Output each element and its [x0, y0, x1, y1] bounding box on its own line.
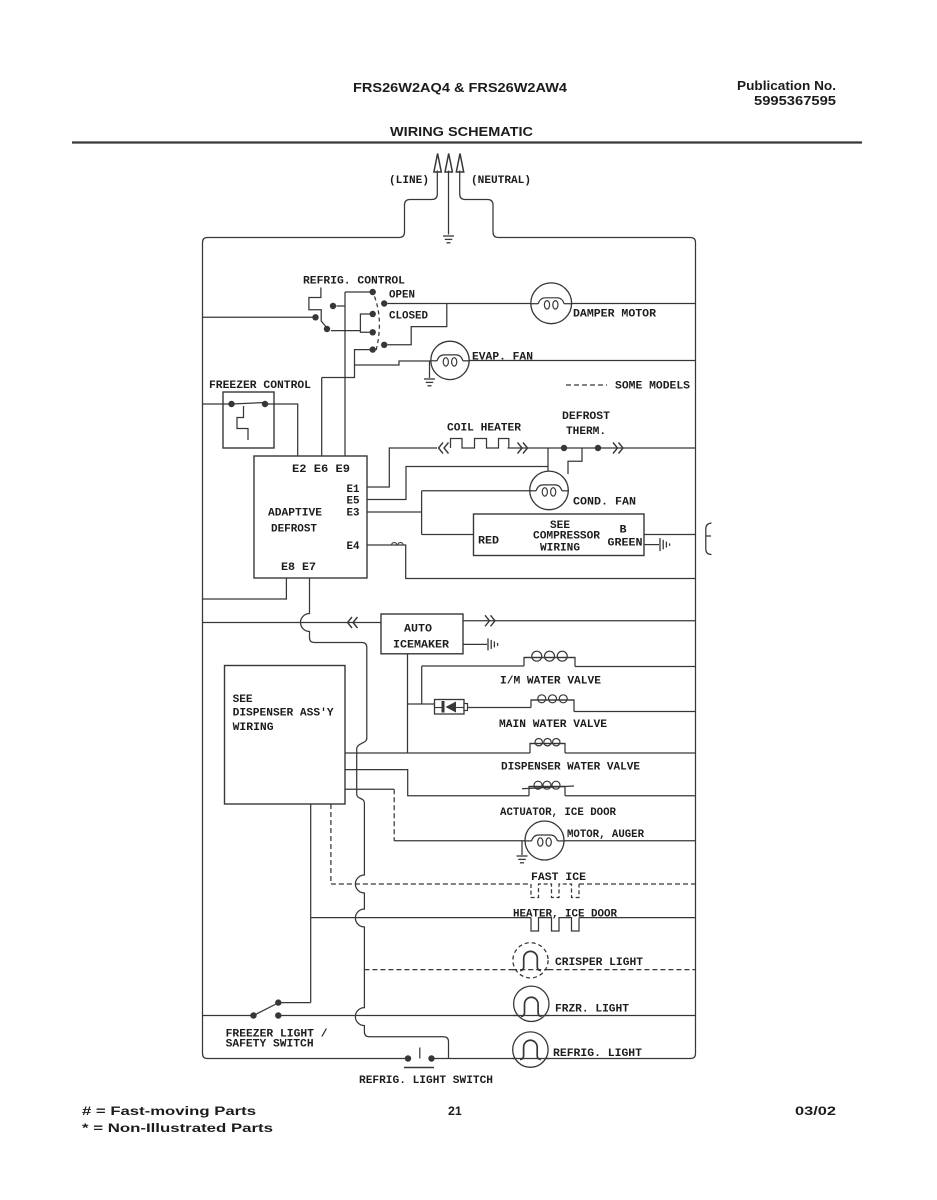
wire RED riser [421, 491, 423, 535]
ground symbol (compressor green) [659, 538, 661, 551]
wire E5 route [367, 467, 548, 500]
wire E8 to left edge [203, 578, 287, 599]
dispenser water valve coil [530, 744, 565, 754]
wire left edge to refrig control [203, 316, 314, 318]
contact [262, 401, 268, 407]
wire E1 to coil heater row [367, 448, 437, 487]
wire switch to dispenser box [282, 804, 311, 1003]
actuator ice door coil [529, 787, 565, 796]
wire GREEN to ground [644, 544, 659, 546]
adaptive defrost control box [254, 456, 367, 578]
wire left edge to freezer control [203, 403, 230, 405]
svg-text:OPEN: OPEN [389, 290, 415, 302]
svg-text:DISPENSER WATER VALVE: DISPENSER WATER VALVE [501, 762, 640, 774]
main water valve coil [531, 700, 574, 712]
contact OPEN [381, 300, 387, 306]
refrig control thermostat bracket [309, 288, 326, 327]
svg-text:FAST ICE: FAST ICE [531, 872, 586, 884]
svg-text:SOME MODELS: SOME MODELS [615, 381, 690, 393]
wire [331, 330, 360, 332]
svg-text:MOTOR, AUGER: MOTOR, AUGER [567, 829, 644, 841]
contact [370, 346, 376, 352]
svg-text:EVAP. FAN: EVAP. FAN [472, 352, 533, 364]
evap fan motor [431, 341, 469, 379]
wire E7 route [301, 578, 449, 1059]
wire OPEN to damper motor [388, 303, 531, 305]
wire dispenser box to actuator [345, 770, 529, 796]
chevron right [523, 443, 528, 454]
contact [330, 303, 336, 309]
svg-text:AUTO: AUTO [404, 624, 432, 636]
wire i/m valve to right edge [575, 666, 696, 668]
auger motor [525, 821, 564, 860]
svg-text:REFRIG. LIGHT SWITCH: REFRIG. LIGHT SWITCH [359, 1075, 493, 1087]
wire dispenser valve to right edge [565, 752, 696, 754]
ground wire center prong [448, 171, 450, 235]
ground symbol (icemaker) [487, 638, 489, 650]
svg-text:ICEMAKER: ICEMAKER [393, 640, 449, 652]
svg-text:E8 E7: E8 E7 [281, 562, 316, 574]
see dispenser assy wiring box [225, 666, 346, 805]
actuator plunger line [522, 786, 574, 789]
svg-text:CLOSED: CLOSED [389, 311, 428, 323]
svg-text:5995367595: 5995367595 [754, 93, 836, 108]
wire left edge to icemaker [203, 622, 382, 624]
coil heater element [451, 439, 509, 449]
svg-text:COND. FAN: COND. FAN [573, 497, 636, 509]
contact [370, 329, 376, 335]
ground symbol (evap fan) [429, 361, 431, 378]
auto icemaker box [381, 614, 463, 654]
svg-text:HEATER, ICE DOOR: HEATER, ICE DOOR [513, 909, 617, 921]
svg-text:FRS26W2AQ4 & FRS26W2AW4: FRS26W2AQ4 & FRS26W2AW4 [353, 80, 568, 95]
contact [228, 401, 234, 407]
defrost thermostat contact [561, 445, 567, 451]
wire auger feed [394, 840, 526, 842]
frzr light lamp [514, 986, 549, 1021]
svg-text:I/M WATER VALVE: I/M WATER VALVE [500, 676, 601, 688]
compressor wiring box [474, 514, 645, 556]
wire heater ice door row [311, 917, 531, 919]
svg-text:E4: E4 [347, 541, 360, 553]
svg-text:Publication No.: Publication No. [737, 78, 836, 93]
wire damper motor to right edge [572, 303, 696, 305]
ground symbol (plug) [443, 235, 454, 237]
svg-text:WIRING: WIRING [233, 722, 274, 734]
wire RED to compressor [422, 534, 474, 536]
wire dispenser box to auger (dashed riser) [345, 788, 394, 790]
contact CLOSED [381, 342, 387, 348]
diode D1 [435, 700, 465, 715]
freezer light safety switch [250, 1012, 256, 1018]
svg-text:MAIN WATER VALVE: MAIN WATER VALVE [499, 719, 607, 731]
svg-text:WIRING SCHEMATIC: WIRING SCHEMATIC [390, 124, 534, 139]
wire [345, 291, 370, 293]
chevron right 2 [619, 443, 624, 454]
svg-text:FRZR. LIGHT: FRZR. LIGHT [555, 1004, 629, 1016]
fast ice heater element (dashed) [531, 884, 579, 898]
heater ice door element [531, 918, 579, 931]
contact [370, 289, 376, 295]
svg-text:RED: RED [478, 536, 499, 548]
svg-text:ACTUATOR, ICE DOOR: ACTUATOR, ICE DOOR [500, 807, 616, 819]
cond fan motor [530, 471, 569, 510]
svg-text:E3: E3 [347, 508, 360, 520]
wire i/m riser [421, 666, 423, 704]
wire auger to right edge [563, 840, 696, 842]
plug prong NEUTRAL [456, 154, 463, 173]
chevron left (coil heater) [439, 443, 444, 454]
contact [370, 311, 376, 317]
wire node E9 riser [344, 292, 346, 456]
svg-text:DAMPER MOTOR: DAMPER MOTOR [573, 309, 656, 321]
wire evap fan feed [355, 361, 432, 365]
svg-text:* = Non-Illustrated Parts: * = Non-Illustrated Parts [82, 1121, 273, 1135]
wire CLOSED loop [388, 304, 447, 345]
defrost thermostat contact [595, 445, 601, 451]
wire cond fan left feed [422, 490, 530, 492]
crisper light lamp [513, 943, 548, 978]
damper motor M1 [531, 283, 572, 324]
wire icemaker to right edge [463, 620, 696, 622]
wire E6 riser [321, 378, 323, 457]
svg-text:CRISPER LIGHT: CRISPER LIGHT [555, 957, 643, 969]
wire freezer light row left [203, 1015, 252, 1017]
plug prong ground [445, 154, 452, 173]
wire freezer control to E2 [267, 404, 298, 456]
wire B to right edge [644, 534, 696, 536]
svg-text:E1: E1 [347, 484, 360, 496]
chevron left (icemaker) [348, 617, 353, 628]
svg-text:E5: E5 [347, 496, 360, 508]
wire cond fan top feed [547, 448, 549, 472]
wire heater to defrost therm [508, 447, 696, 449]
svg-text:DEFROST: DEFROST [271, 524, 317, 536]
i/m water valve coil [524, 658, 575, 667]
wire freezer light row right [282, 1015, 696, 1017]
ground symbol (auger motor) [521, 841, 523, 855]
svg-text:COMPRESSOR: COMPRESSOR [533, 531, 600, 543]
defrost thermostat element [568, 448, 582, 474]
svg-text:03/02: 03/02 [795, 1104, 836, 1118]
svg-text:REFRIG. LIGHT: REFRIG. LIGHT [553, 1048, 642, 1060]
wire contact to evap net [322, 350, 370, 378]
terminal bracket [706, 523, 712, 555]
wire line prong to frame [203, 171, 438, 1059]
svg-text:(LINE): (LINE) [389, 175, 429, 187]
wire diode to main valve coil [468, 707, 532, 709]
wire icemaker ground lead [463, 643, 487, 645]
wire fast ice row dashed [331, 883, 531, 885]
wire actuator to right edge [565, 795, 696, 797]
refrig light switch [405, 1055, 411, 1061]
svg-text:DISPENSER ASS'Y: DISPENSER ASS'Y [233, 708, 334, 720]
svg-text:DEFROST: DEFROST [562, 411, 610, 423]
svg-text:E2 E6 E9: E2 E6 E9 [292, 464, 350, 476]
wire evap fan to right edge [469, 360, 696, 362]
header rule [72, 141, 862, 143]
contact [312, 314, 318, 320]
freezer control thermostat zigzag [237, 406, 248, 440]
wire dispenser box to dispenser valve [345, 752, 530, 754]
legend dashed sample [566, 384, 607, 386]
contact [324, 326, 330, 332]
wire icemaker box to diode [407, 654, 409, 753]
wire hop bumps [392, 543, 404, 545]
refrig light lamp [513, 1032, 548, 1067]
svg-text:(NEUTRAL): (NEUTRAL) [471, 175, 531, 187]
wire C-link [360, 314, 369, 332]
svg-text:GREEN: GREEN [608, 538, 643, 550]
svg-text:REFRIG. CONTROL: REFRIG. CONTROL [303, 276, 405, 288]
svg-text:FREEZER CONTROL: FREEZER CONTROL [209, 380, 311, 392]
svg-text:B: B [620, 525, 627, 537]
svg-text:SEE: SEE [233, 694, 253, 706]
svg-text:COIL HEATER: COIL HEATER [447, 423, 521, 435]
plug prong LINE [434, 154, 441, 173]
svg-text:SAFETY SWITCH: SAFETY SWITCH [226, 1039, 314, 1051]
wire fast ice dashed drop [330, 804, 332, 884]
wire main valve to right edge [574, 711, 696, 713]
svg-text:21: 21 [448, 1104, 462, 1118]
wire [337, 305, 346, 307]
svg-text:ADAPTIVE: ADAPTIVE [268, 508, 322, 520]
wire i/m valve feed [422, 665, 524, 667]
chevron right (icemaker) [491, 615, 496, 626]
wire E3 [367, 511, 422, 513]
svg-text:# = Fast-moving Parts: # = Fast-moving Parts [82, 1104, 256, 1118]
wire diode feed [408, 703, 435, 705]
wire crisper light dashed [364, 969, 695, 971]
freezer control box [223, 392, 274, 448]
wire neutral prong to frame [435, 171, 696, 1059]
wire E4 [367, 545, 696, 579]
svg-text:WIRING: WIRING [540, 543, 580, 555]
switch wiper dashed arc [375, 297, 380, 351]
svg-text:THERM.: THERM. [566, 426, 606, 438]
freezer control switch blade [232, 403, 266, 405]
